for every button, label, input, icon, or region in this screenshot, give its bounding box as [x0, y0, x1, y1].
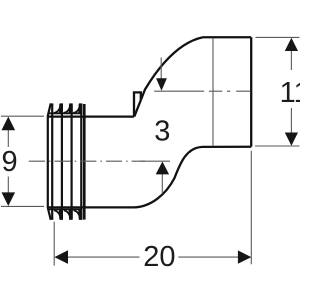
inlet centerline solid end segment — [141, 160, 171, 162]
outlet top line — [203, 36, 251, 38]
body top edge: straight + notch + curve to outlet — [48, 115, 134, 117]
rib bar 2 — [61, 105, 63, 219]
dim 20 line left segment — [67, 256, 140, 258]
gasket — [48, 103, 85, 220]
body bottom edge — [48, 206, 134, 208]
rib 2 bottom tooth — [54, 210, 60, 219]
rib bar 3 — [70, 105, 72, 219]
svg-text:20: 20 — [143, 241, 175, 273]
rib bar 4 — [80, 105, 82, 219]
dim 11 top arrow — [285, 38, 298, 51]
outlet centerline (dash-dot) — [154, 90, 253, 92]
gasket end flange — [83, 104, 86, 220]
dim 20 right extension line — [250, 151, 252, 265]
gasket left face with chamfers — [48, 105, 51, 218]
rib 3 top tooth — [64, 104, 70, 113]
dim 9 line lower segment — [7, 177, 9, 195]
dim 20 line right segment — [178, 256, 239, 258]
dim 3 upper leader line — [160, 58, 162, 80]
dim 11 line lower segment — [290, 108, 292, 133]
rib 1 top tip nub — [49, 103, 53, 105]
outlet right edge — [250, 37, 252, 146]
dim 20 right arrow — [238, 250, 251, 263]
joint line between bend and socket — [212, 38, 214, 145]
rib bar 1 — [51, 105, 53, 219]
svg-text:9: 9 — [2, 146, 18, 178]
dim 9 top extension line — [1, 115, 44, 117]
dim 9 bottom arrow — [2, 192, 16, 206]
gasket top valley floor line — [48, 112, 83, 114]
alignment notch — [134, 92, 141, 116]
gasket bottom valley floor line — [48, 208, 83, 210]
outlet bottom line — [203, 146, 251, 148]
rib 2 top tooth — [54, 104, 60, 113]
rib 4 top tooth — [74, 104, 80, 113]
dim 3 up arrow — [156, 162, 169, 175]
rib 4 bottom tooth — [74, 210, 80, 219]
svg-text:3: 3 — [154, 115, 170, 147]
dim 20 left extension line — [53, 222, 55, 266]
rib 1 bottom tip nub — [49, 218, 53, 220]
dim 20 left arrow — [54, 250, 68, 264]
rib 3 bottom tooth — [64, 210, 70, 219]
top S-curve to outlet — [134, 37, 203, 116]
dim 9 top arrow — [2, 117, 16, 131]
dim 9 line upper segment — [7, 128, 9, 147]
bottom S-curve — [134, 147, 203, 208]
dim 3 lower leader line — [161, 174, 163, 194]
svg-text:11: 11 — [280, 77, 300, 109]
dim 11 line upper segment — [290, 50, 292, 70]
dim 9 bottom extension line — [1, 205, 44, 207]
dim 3 down arrow — [156, 78, 167, 91]
inlet centerline (dash-dot) — [29, 160, 145, 162]
dim 11 bottom extension line — [255, 145, 300, 147]
dim 11 top extension line — [256, 36, 300, 38]
dim 11 bottom arrow — [285, 133, 298, 146]
